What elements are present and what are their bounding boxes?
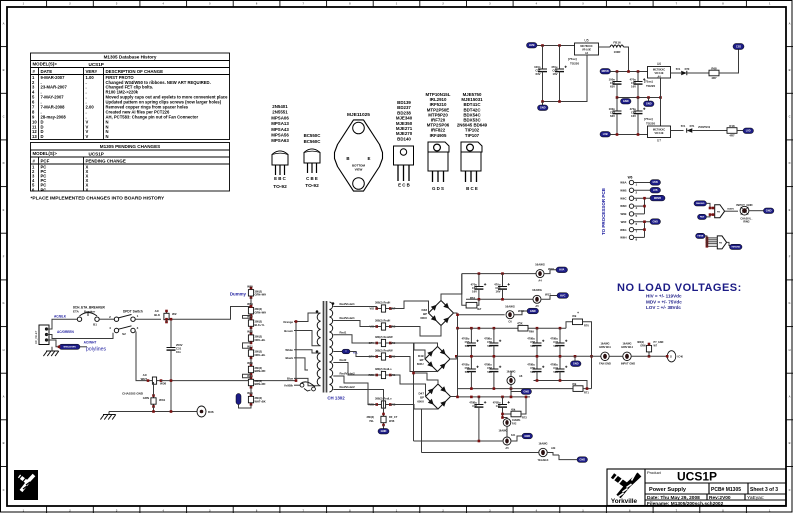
wire switch to fuse W2 bbox=[135, 318, 161, 320]
svg-text:16AWG: 16AWG bbox=[538, 442, 547, 446]
svg-text:RedH: RedH bbox=[384, 319, 391, 323]
port HVC bbox=[557, 293, 569, 299]
svg-text:G: G bbox=[2, 301, 4, 305]
wire fan conn out bbox=[725, 210, 738, 212]
svg-text:Dummy: Dummy bbox=[230, 292, 247, 297]
svg-text:9-MAR-2007: 9-MAR-2007 bbox=[41, 75, 66, 80]
svg-text:W6D: W6D bbox=[620, 204, 626, 208]
svg-text:DPDT Switch: DPDT Switch bbox=[123, 310, 143, 314]
wire D48 out right bbox=[454, 312, 458, 314]
wire mid gnd rail bbox=[617, 97, 661, 99]
svg-text:HVB: HVB bbox=[529, 43, 535, 47]
svg-text:B: B bbox=[789, 441, 791, 445]
jumper W52 bbox=[250, 333, 252, 343]
wire D49 top bbox=[414, 343, 438, 347]
svg-text:B: B bbox=[789, 68, 791, 72]
svg-text:C6: C6 bbox=[508, 320, 512, 324]
wire stud to GND port bbox=[749, 210, 764, 212]
wire D49 out right bbox=[450, 356, 456, 359]
svg-text:16AWG: 16AWG bbox=[535, 263, 545, 267]
svg-text:MDV = +/- 75Vdc: MDV = +/- 75Vdc bbox=[646, 299, 682, 304]
svg-text:600U: 600U bbox=[417, 362, 424, 366]
wire AC green bbox=[47, 340, 60, 347]
svg-text:Filename: M1305/200sch.sch2002: Filename: M1305/200sch.sch2002 bbox=[647, 501, 724, 507]
chassis stud IC40 bbox=[667, 351, 676, 362]
svg-text:LVB: LVB bbox=[603, 132, 608, 136]
svg-text:470Bu: 470Bu bbox=[550, 363, 558, 367]
svg-text:MPSA06: MPSA06 bbox=[271, 115, 289, 120]
wire output row bbox=[609, 355, 623, 357]
wire W51-W50 bbox=[250, 358, 252, 365]
svg-text:470Bu: 470Bu bbox=[493, 401, 501, 405]
svg-text:W2: W2 bbox=[172, 312, 177, 316]
svg-text:56V: 56V bbox=[530, 370, 535, 374]
wire W6 pin3-4-5 bus bbox=[644, 198, 646, 214]
svg-text:C B E: C B E bbox=[306, 176, 318, 181]
port C2D bbox=[733, 44, 744, 50]
wire bank2 mid bbox=[505, 355, 601, 357]
svg-text:H: H bbox=[789, 348, 791, 352]
svg-text:GND: GND bbox=[623, 99, 629, 103]
svg-text:*PLACE IMPLEMENTED CHANGES INT: *PLACE IMPLEMENTED CHANGES INTO BOARD HI… bbox=[31, 196, 166, 202]
svg-text:C59: C59 bbox=[530, 366, 535, 370]
svg-text:R72: R72 bbox=[522, 416, 527, 420]
wire D47 out right bbox=[451, 396, 458, 398]
svg-text:RedH: RedH bbox=[384, 301, 391, 305]
svg-text:1.00: 1.00 bbox=[86, 75, 95, 80]
svg-text:470Bu: 470Bu bbox=[469, 401, 477, 405]
capacitor C55 bbox=[470, 328, 472, 343]
svg-text:C55: C55 bbox=[465, 340, 470, 344]
svg-text:GRN: GRN bbox=[640, 345, 646, 348]
svg-text:M1305 PENDING CHANGES: M1305 PENDING CHANGES bbox=[100, 144, 161, 149]
svg-text:A/E: A/E bbox=[551, 446, 556, 450]
svg-text:C56: C56 bbox=[465, 366, 470, 370]
chassis stud D36 bbox=[197, 406, 206, 417]
svg-text:C: C bbox=[789, 115, 791, 119]
bridge rectifier D49 bbox=[425, 347, 450, 372]
svg-text:Red/Violet1: Red/Violet1 bbox=[340, 316, 356, 320]
capacitor C56 bbox=[493, 356, 495, 369]
wire W41 out bbox=[241, 404, 251, 408]
svg-text:PCB# M1305: PCB# M1305 bbox=[711, 487, 741, 493]
svg-text:380(2): 380(2) bbox=[375, 319, 383, 323]
wire U5 ground rail bbox=[543, 55, 588, 102]
svg-text:W6C: W6C bbox=[620, 196, 626, 200]
svg-text:NO LOAD VOLTAGES:: NO LOAD VOLTAGES: bbox=[617, 282, 742, 294]
svg-text:+: + bbox=[577, 311, 579, 315]
svg-text:FA2: FA2 bbox=[512, 422, 517, 425]
port GND (stud) bbox=[763, 208, 774, 214]
svg-text:GND: GND bbox=[524, 434, 530, 438]
svg-text:Power Supply: Power Supply bbox=[649, 487, 687, 493]
svg-text:63V: 63V bbox=[610, 114, 615, 118]
svg-text:R61: R61 bbox=[470, 296, 476, 300]
svg-text:E B C: E B C bbox=[274, 176, 287, 181]
svg-text:W6E: W6E bbox=[620, 212, 626, 216]
svg-text:U6: U6 bbox=[657, 62, 661, 66]
capacitor C61 bbox=[478, 274, 480, 287]
primary tap Black bbox=[294, 358, 308, 370]
svg-text:7-MAY-2007: 7-MAY-2007 bbox=[41, 95, 65, 100]
capacitor C66 bbox=[616, 72, 618, 82]
svg-text:S: S bbox=[670, 355, 672, 359]
ground port GND (U6 left) bbox=[621, 99, 632, 105]
svg-text:A: A bbox=[3, 395, 5, 399]
svg-text:470Bu: 470Bu bbox=[462, 363, 470, 367]
svg-text:CH 1302: CH 1302 bbox=[327, 396, 345, 401]
port FANGND (fan top a) bbox=[694, 201, 707, 206]
wire LV top rail bbox=[458, 396, 531, 398]
port LVB bbox=[600, 132, 611, 138]
junctions U5 gnd bbox=[541, 100, 544, 103]
svg-text:5V1: 5V1 bbox=[676, 67, 681, 71]
wire R68 to port bbox=[719, 50, 739, 74]
wire W49-W41 bbox=[250, 387, 252, 395]
wire W17 to HVC bbox=[541, 296, 557, 300]
svg-text:56V: 56V bbox=[465, 370, 470, 374]
svg-text:GRN: GRN bbox=[143, 396, 149, 400]
table M1305 Database History bbox=[31, 53, 230, 140]
port GND (CT) bbox=[383, 425, 385, 429]
svg-text:B: B bbox=[3, 68, 5, 72]
capacitor C66 bbox=[478, 397, 480, 405]
wire D47 top bbox=[414, 373, 439, 384]
svg-text:UCS1P: UCS1P bbox=[89, 62, 104, 67]
wire bank2 bottom bbox=[534, 381, 588, 389]
svg-text:A6: A6 bbox=[519, 374, 523, 378]
svg-text:U5: U5 bbox=[584, 39, 588, 43]
svg-text:2V00/5V1$: 2V00/5V1$ bbox=[698, 126, 711, 129]
svg-text:N: N bbox=[106, 134, 109, 139]
node U5 in junctions bbox=[541, 44, 544, 47]
svg-text:BRN+RD: BRN+RD bbox=[255, 369, 266, 373]
svg-text:C2D: C2D bbox=[736, 44, 741, 48]
svg-text:RING: RING bbox=[743, 220, 749, 223]
svg-text:100R: 100R bbox=[614, 50, 621, 54]
svg-text:UCS1P: UCS1P bbox=[677, 470, 717, 484]
svg-text:UCS1P: UCS1P bbox=[89, 152, 104, 157]
svg-text:BD140: BD140 bbox=[397, 136, 411, 141]
svg-text:[75xx]: [75xx] bbox=[644, 117, 653, 121]
bridge rectifier D48 bbox=[429, 301, 454, 326]
svg-text:FANGND: FANGND bbox=[696, 202, 705, 205]
svg-text:Orange: Orange bbox=[283, 320, 293, 324]
svg-text:LVB: LVB bbox=[653, 189, 658, 192]
svg-text:Blue: Blue bbox=[287, 377, 294, 381]
svg-text:56V: 56V bbox=[553, 370, 558, 374]
jumper W55 bbox=[250, 288, 252, 298]
jumper W49 bbox=[250, 378, 252, 388]
net YEL tap bbox=[333, 351, 342, 353]
op-amp U6 regulator bbox=[648, 67, 671, 79]
svg-text:D71: D71 bbox=[690, 124, 695, 128]
svg-text:16V: 16V bbox=[472, 290, 477, 294]
capacitor C62 bbox=[637, 98, 639, 112]
svg-text:HVA: HVA bbox=[559, 268, 564, 272]
transformer primary winding 1 bbox=[317, 313, 320, 346]
svg-text:Red1: Red1 bbox=[340, 330, 347, 334]
svg-text:VR-5.0E: VR-5.0E bbox=[654, 132, 663, 135]
bridge rectifier D47 bbox=[426, 384, 451, 409]
svg-text:Yorkville: Yorkville bbox=[611, 498, 638, 505]
svg-text:TO220: TO220 bbox=[570, 62, 579, 66]
svg-text:Yel/Blk: Yel/Blk bbox=[284, 384, 294, 388]
svg-text:TO-92: TO-92 bbox=[305, 183, 319, 189]
op-amp U7 regulator bbox=[648, 126, 671, 138]
svg-text:16V: 16V bbox=[553, 72, 558, 76]
wire HV to W16 bbox=[458, 314, 505, 316]
ground (inlet) bbox=[51, 347, 53, 351]
wire C31 to bottom rail bbox=[170, 355, 172, 412]
wire W6 pin6-7-8 bus bbox=[644, 222, 646, 238]
wire fan pin b bbox=[707, 215, 715, 217]
capacitor C73 bbox=[559, 328, 561, 343]
svg-text:Date: Thu May 29, 2008: Date: Thu May 29, 2008 bbox=[647, 495, 700, 501]
svg-text:TO220: TO220 bbox=[646, 122, 655, 126]
transformer T1 core bbox=[323, 301, 325, 393]
svg-text:W36: W36 bbox=[160, 382, 167, 386]
primary tap Blue bbox=[294, 378, 321, 385]
svg-text:Red2: Red2 bbox=[340, 358, 347, 362]
svg-text:C56: C56 bbox=[487, 366, 492, 370]
svg-text:MPSA56: MPSA56 bbox=[271, 133, 289, 138]
svg-text:GND: GND bbox=[381, 429, 387, 433]
svg-text:16AWG: 16AWG bbox=[498, 429, 507, 433]
transistor Q TO-220 package 2 bbox=[461, 142, 482, 182]
svg-text:HVC: HVC bbox=[560, 293, 566, 297]
junctions MDV rail bbox=[616, 70, 619, 73]
svg-text:Black: Black bbox=[286, 356, 294, 360]
svg-text:45k: 45k bbox=[517, 322, 523, 326]
primary tap White bbox=[294, 350, 321, 353]
svg-text:AC/GREEN: AC/GREEN bbox=[57, 330, 75, 334]
wire line cap branch bbox=[170, 319, 172, 342]
svg-text:IRF4905: IRF4905 bbox=[430, 133, 447, 138]
connector AC inlet bbox=[39, 325, 49, 345]
svg-text:G D S: G D S bbox=[432, 186, 444, 191]
svg-text:DESCRIPTION OF CHANGE: DESCRIPTION OF CHANGE bbox=[106, 69, 164, 74]
svg-text:X: X bbox=[86, 187, 89, 192]
svg-text:MC79XXC: MC79XXC bbox=[653, 128, 665, 132]
svg-text:W6B: W6B bbox=[620, 189, 626, 193]
svg-text:[75xx]: [75xx] bbox=[644, 80, 653, 84]
svg-text:W6G: W6G bbox=[620, 228, 626, 232]
svg-text:63V: 63V bbox=[610, 85, 615, 89]
wire R18 to port bbox=[737, 130, 743, 132]
wire switch pin3 down bbox=[136, 332, 148, 381]
transformer primary winding 2 bbox=[317, 353, 320, 386]
junctions mid gnd bbox=[616, 96, 619, 99]
capacitor C57 bbox=[542, 46, 544, 70]
wire HVB rail bbox=[537, 45, 575, 47]
svg-text:FAN GND: FAN GND bbox=[599, 362, 611, 366]
svg-text:VIEW: VIEW bbox=[355, 168, 363, 172]
port MDVB bbox=[600, 69, 611, 75]
svg-text:16V: 16V bbox=[496, 290, 501, 294]
svg-text:ORG+BL: ORG+BL bbox=[255, 338, 266, 342]
svg-text:MDVB: MDVB bbox=[602, 70, 609, 73]
svg-text:ORG+BL: ORG+BL bbox=[255, 353, 266, 357]
svg-text:R70: R70 bbox=[584, 323, 589, 327]
svg-text:56V: 56V bbox=[465, 344, 470, 348]
transistor Q TO-92 package 2 bbox=[304, 149, 320, 173]
svg-text:Product: Product bbox=[647, 470, 662, 475]
svg-text:DATE: DATE bbox=[41, 69, 53, 74]
svg-text:B C E: B C E bbox=[466, 186, 478, 191]
svg-text:A5: A5 bbox=[535, 304, 539, 308]
svg-text:W52: W52 bbox=[247, 330, 253, 334]
capacitor C60 bbox=[502, 274, 504, 287]
svg-text:A: A bbox=[3, 21, 5, 25]
svg-text:W6H: W6H bbox=[620, 236, 626, 240]
svg-text:GRN W14: GRN W14 bbox=[621, 345, 633, 349]
svg-text:A: A bbox=[789, 395, 791, 399]
svg-text:R18: R18 bbox=[729, 124, 735, 128]
wire W18 to HVA bbox=[544, 270, 556, 274]
svg-text:B: B bbox=[346, 156, 349, 161]
port GND (A5) bbox=[522, 433, 533, 439]
svg-text:A5: A5 bbox=[505, 446, 509, 450]
wire W36 right to primary bbox=[161, 380, 296, 382]
svg-text:GND: GND bbox=[523, 390, 529, 394]
wire W16 to GND port bbox=[514, 311, 527, 315]
wire FB to MDV rail bbox=[624, 47, 629, 72]
svg-text:GRN+WH: GRN+WH bbox=[255, 310, 267, 314]
svg-text:Red/Violet2: Red/Violet2 bbox=[340, 385, 356, 389]
wire A5 to GND bbox=[511, 436, 522, 441]
svg-text:G: G bbox=[788, 301, 790, 305]
svg-text:GND: GND bbox=[766, 209, 772, 213]
capacitor C65 bbox=[637, 72, 639, 82]
svg-text:D: D bbox=[3, 161, 5, 165]
wire fan pin a bbox=[707, 203, 715, 208]
resistor R71 divider low bbox=[591, 356, 593, 388]
port LVD bbox=[743, 128, 754, 134]
resistor R69 bbox=[518, 325, 528, 331]
port HVA bbox=[556, 267, 568, 273]
wire W50-W49 bracket bbox=[243, 374, 252, 377]
svg-text:YaEyac:: YaEyac: bbox=[747, 495, 765, 501]
svg-text:MJE11025: MJE11025 bbox=[347, 112, 370, 118]
wire whtblk vertical bbox=[295, 322, 297, 381]
svg-text:CHASSIS GND: CHASSIS GND bbox=[122, 392, 144, 396]
junctions LV rail bbox=[616, 133, 619, 136]
wire fan2 out bbox=[727, 242, 732, 245]
svg-text:470Bu: 470Bu bbox=[484, 337, 492, 341]
svg-text:A4: A4 bbox=[538, 279, 542, 283]
port W41 net bbox=[236, 394, 241, 405]
svg-text:Brown: Brown bbox=[284, 329, 293, 333]
svg-text:GND: GND bbox=[653, 221, 659, 224]
svg-text:C: C bbox=[789, 488, 791, 492]
svg-text:10n: 10n bbox=[176, 350, 181, 354]
svg-text:ETA: ETA bbox=[73, 310, 80, 314]
svg-text:W50: W50 bbox=[247, 361, 253, 365]
svg-text:AC/WHT: AC/WHT bbox=[84, 341, 97, 345]
resistor R68 bbox=[709, 70, 719, 76]
primary tap Orange bbox=[294, 313, 321, 322]
svg-text:FB: FB bbox=[719, 243, 722, 245]
svg-text:MC78XXC: MC78XXC bbox=[653, 68, 665, 72]
svg-text:BRN+RD: BRN+RD bbox=[255, 382, 266, 386]
svg-text:LOV = +/- 38Vdc: LOV = +/- 38Vdc bbox=[646, 305, 681, 310]
svg-text:White: White bbox=[285, 348, 293, 352]
svg-text:B: B bbox=[3, 441, 5, 445]
svg-text:16V: 16V bbox=[631, 114, 636, 118]
wire U6 gnd drop bbox=[660, 78, 662, 126]
wire green continue bbox=[80, 346, 87, 348]
svg-text:C73: C73 bbox=[553, 340, 558, 344]
svg-text:RedLo: RedLo bbox=[384, 397, 392, 401]
svg-text:C74: C74 bbox=[553, 366, 558, 370]
svg-text:W41: W41 bbox=[247, 391, 253, 395]
svg-text:BLK: BLK bbox=[154, 313, 160, 317]
svg-text:PCF: PCF bbox=[41, 159, 50, 164]
svg-text:RedLo: RedLo bbox=[384, 367, 392, 371]
svg-text:470Bu: 470Bu bbox=[527, 363, 535, 367]
connector J fan (bottom) bbox=[717, 236, 726, 249]
table M1305 Pending Changes bbox=[31, 143, 230, 192]
wire AC black from inlet bbox=[47, 319, 78, 329]
svg-text:W18: W18 bbox=[548, 267, 554, 271]
vertical bus from bridges down bbox=[413, 343, 415, 441]
svg-text:MDVB: MDVB bbox=[654, 197, 661, 200]
wire bridge D48 + up to HV rail bbox=[441, 274, 462, 301]
phase dots primary bbox=[316, 310, 319, 313]
wire fan bottom vert bbox=[706, 238, 708, 246]
ground port GND (U6 right) bbox=[648, 98, 650, 102]
fuse lower chain bbox=[503, 418, 508, 419]
svg-text:TIP107: TIP107 bbox=[465, 133, 480, 138]
svg-text:AC/BLK: AC/BLK bbox=[54, 315, 67, 319]
resistor R61 bbox=[462, 274, 466, 306]
svg-text:TO PROCESSOR PCB: TO PROCESSOR PCB bbox=[601, 187, 606, 235]
svg-text:4k7: 4k7 bbox=[477, 307, 482, 311]
wire MDV rail bbox=[611, 71, 648, 73]
svg-text:470Bu: 470Bu bbox=[527, 337, 535, 341]
svg-text:H: H bbox=[3, 348, 5, 352]
svg-text:FA1: FA1 bbox=[511, 434, 516, 437]
svg-text:E: E bbox=[3, 208, 5, 212]
wires secondary to jumpers bbox=[333, 307, 376, 309]
svg-text:C47: C47 bbox=[496, 404, 501, 408]
svg-text:M1305 Database History: M1305 Database History bbox=[104, 55, 157, 60]
capacitor C47 bbox=[502, 397, 504, 405]
svg-text:FB16: FB16 bbox=[613, 41, 621, 45]
svg-text:2N5401: 2N5401 bbox=[272, 104, 288, 109]
net shield box bbox=[59, 344, 80, 349]
svg-text:WHT: WHT bbox=[141, 377, 148, 381]
svg-text:RF_CT: RF_CT bbox=[389, 415, 398, 419]
wire W55-W54 bbox=[250, 298, 252, 306]
svg-text:56V: 56V bbox=[553, 344, 558, 348]
ground port GND (U5) bbox=[542, 102, 544, 106]
svg-text:MPSA43: MPSA43 bbox=[271, 127, 289, 132]
svg-text:E: E bbox=[368, 156, 371, 161]
port GND (lower bank) bbox=[511, 391, 521, 393]
wire D70 to R68 bbox=[687, 72, 709, 74]
svg-text:INPUT GND: INPUT GND bbox=[621, 362, 635, 366]
svg-text:23-MAR-2007: 23-MAR-2007 bbox=[41, 85, 68, 90]
port FANB2 (fan top b) bbox=[698, 214, 707, 219]
title block bbox=[607, 469, 786, 506]
svg-text:45k: 45k bbox=[511, 407, 516, 411]
svg-text:R71: R71 bbox=[584, 391, 589, 395]
svg-text:Rev:2V00: Rev:2V00 bbox=[709, 495, 731, 501]
svg-text:C55: C55 bbox=[487, 340, 492, 344]
svg-text:470Bu: 470Bu bbox=[462, 337, 470, 341]
